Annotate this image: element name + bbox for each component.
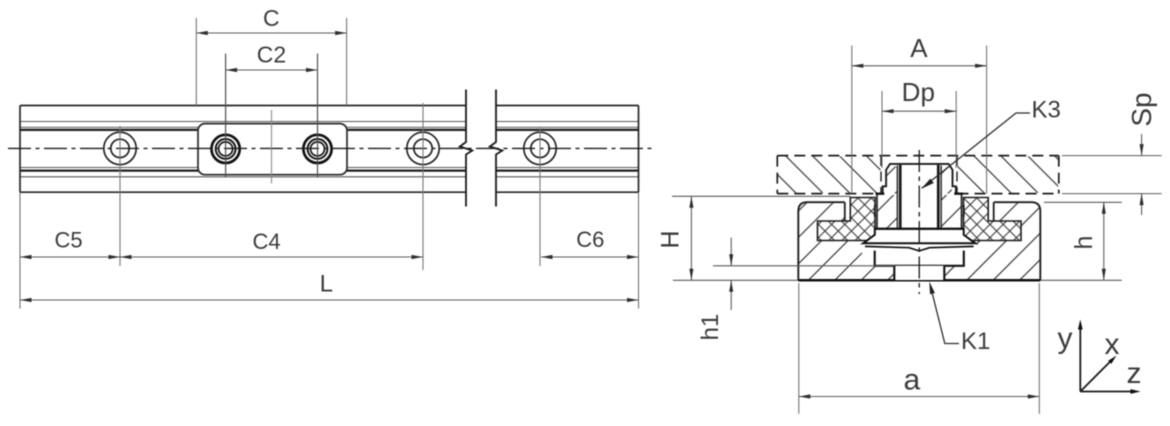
coordinate axes [1058,320,1142,394]
break symbol right line [490,90,503,207]
RIGHT VIEW: cross-section [657,33,1162,414]
extension line through hole 1 [119,126,121,266]
slot lip verticals [845,202,994,221]
extension/centerline through bolt 2 [317,54,319,178]
dimension a [799,283,1040,414]
bottom reference line (H/h1/h) [673,279,1122,281]
dimension Dp [882,77,956,168]
extension line C right [346,18,348,106]
extension line L/C5 left [19,192,21,308]
rail outer edges redrawn [798,202,1040,280]
rail right end edge [638,106,640,193]
hole 4 (x=423) [407,132,439,164]
leader K1 [929,282,990,356]
rail body horizontal edges (left of break) [20,106,639,193]
break symbol left line [460,90,473,207]
extension/centerline through bolt 1 [225,54,227,178]
svg-text:h1: h1 [697,314,724,341]
svg-text:Sp: Sp [1126,92,1157,126]
nut flange plate (piece B) [863,229,975,244]
dimension C6 [541,227,639,259]
clamp top reference line (H) [672,195,850,197]
svg-text:x: x [1105,328,1120,361]
hat wall hatching [887,167,897,194]
machine table plate hatch left part [778,156,881,192]
svg-text:C5: C5 [55,227,83,252]
svg-text:K3: K3 [1032,97,1061,124]
extension line C left [195,18,197,106]
machine table plate hatch right part [958,156,1059,192]
claw hooks [874,206,964,216]
nut hat (threaded bush) [883,164,956,194]
left clamp strip (cross hatched) [818,198,876,241]
extension line L/C6 right [638,192,640,308]
dimension h [1044,202,1122,280]
dimension Sp [1062,92,1162,215]
vertical centerline [918,150,920,294]
dimension C [196,5,346,35]
svg-text:Dp: Dp [902,77,935,107]
hole 1 (x=120) [104,132,136,164]
plate mid centerline [271,110,273,184]
white-out: cavity [877,194,962,229]
lower nut block (piece C) white fill [875,249,964,266]
hole 5 (x=540) [524,132,556,164]
extension line through hole 5 [539,128,541,266]
machine table plate dashed outline [777,156,1059,194]
cavity walls [877,194,962,229]
bolt 1 (x=225.6) socket head screw [210,133,241,164]
svg-text:C2: C2 [257,42,286,68]
horizontal centerline [8,147,653,149]
hatched column right of screw [942,195,961,229]
dimension C2 [226,42,318,73]
svg-text:L: L [320,271,333,298]
svg-text:C6: C6 [576,227,604,252]
svg-text:z: z [1127,357,1142,390]
bolt 2 (x=317.5) socket head screw [302,133,333,164]
right clamp strip (cross hatched) [964,198,1022,241]
white-out: slot band [845,201,994,221]
rail cross-section body with hatching [798,202,1040,280]
svg-text:H: H [657,230,685,248]
dimension h1 [697,238,894,341]
joint plate (rounded rectangle) [198,124,347,175]
svg-text:C: C [263,5,280,31]
svg-text:h: h [1070,236,1098,250]
extension line through hole 4 [422,103,424,270]
svg-text:a: a [903,364,920,397]
dimension C4 [120,229,423,259]
claw top edges [876,193,964,195]
svg-text:C4: C4 [252,229,280,254]
rail left end edge [19,106,21,193]
leader K3 [921,97,1061,189]
white-out: nut zone [862,241,977,266]
LEFT VIEW: rail side view [8,5,653,309]
svg-text:y: y [1058,322,1073,355]
svg-text:K1: K1 [961,328,990,355]
rail bottom edge thick [798,279,1040,282]
svg-text:A: A [910,33,928,63]
bottom cap (piece D) [894,266,944,280]
plate bore walls (dashed) [881,156,957,194]
white-out: pocket band [818,221,1021,241]
V interface line [865,246,974,251]
screw K3 thread lines [897,165,941,229]
dimension A [852,33,987,194]
dimension H [657,196,694,280]
dimension C5 [20,227,120,259]
piece C outline [875,251,964,266]
dimension L [20,271,639,303]
hatched column left of screw [878,195,897,229]
